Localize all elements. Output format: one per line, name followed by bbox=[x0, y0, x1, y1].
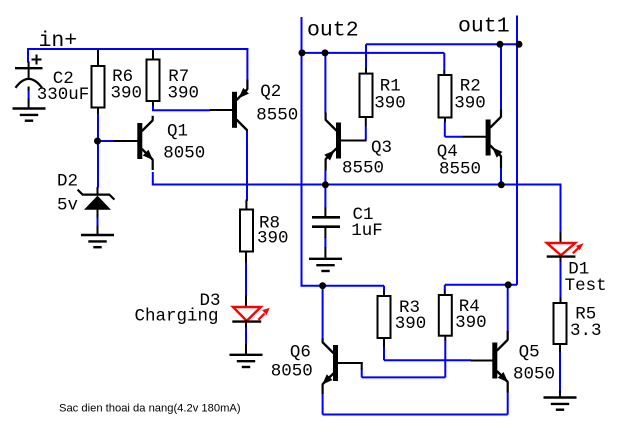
R3 value label bbox=[395, 314, 427, 334]
R1 refdes label bbox=[380, 77, 401, 97]
svg-text:390: 390 bbox=[111, 84, 143, 104]
svg-text:390: 390 bbox=[374, 93, 406, 113]
title text bbox=[59, 403, 241, 415]
R4 value label bbox=[455, 313, 487, 333]
R2 refdes label bbox=[460, 77, 481, 97]
R4 refdes label bbox=[459, 297, 480, 317]
wire D2 bottom to ground bbox=[97, 217, 99, 227]
wire bottom emitter rail bbox=[323, 414, 508, 416]
svg-text:5v: 5v bbox=[57, 195, 78, 215]
svg-text:390: 390 bbox=[168, 84, 200, 104]
resistor R2 bbox=[439, 70, 452, 122]
wire net out2 top horizontal bbox=[302, 52, 445, 54]
wire out1 vertical bbox=[516, 16, 518, 285]
wire C2 ground stub bbox=[28, 99, 30, 109]
ground for D3 bbox=[230, 355, 263, 367]
transistor Q2 bbox=[210, 80, 249, 131]
svg-text:Q1: Q1 bbox=[167, 122, 188, 142]
wire out1 bottom elbow to R4 bbox=[445, 285, 517, 290]
Q5 value label bbox=[513, 365, 555, 385]
R8 value label bbox=[257, 229, 289, 249]
wire out2 bottom elbow to R3 bbox=[301, 286, 385, 291]
resistor R7 bbox=[147, 50, 160, 106]
svg-text:8550: 8550 bbox=[256, 106, 298, 126]
node A junction dot bbox=[94, 138, 101, 145]
svg-text:3.3: 3.3 bbox=[570, 321, 602, 341]
svg-text:390: 390 bbox=[395, 314, 427, 334]
wire D1 bottom to R5 bbox=[560, 262, 562, 298]
Q3 refdes label bbox=[371, 138, 392, 158]
wire in+ top rail bbox=[27, 48, 248, 50]
transistor Q6 bbox=[322, 339, 363, 395]
R5 refdes label bbox=[575, 305, 596, 325]
Q3 value label bbox=[342, 158, 384, 178]
R1 value label bbox=[374, 93, 406, 113]
R3 refdes label bbox=[399, 298, 420, 318]
wire bus elbow down to D1 bbox=[560, 184, 562, 234]
wire Q2 emitter drop from rail bbox=[246, 48, 248, 80]
wire Q1 emitter drop bbox=[152, 172, 154, 185]
node Q5 collector junction dot bbox=[505, 281, 512, 288]
wire drop to R1 top bbox=[365, 44, 367, 68]
svg-text:330uF: 330uF bbox=[37, 85, 90, 105]
svg-text:390: 390 bbox=[455, 313, 487, 333]
svg-text:Sac dien thoai da nang(4.2v 18: Sac dien thoai da nang(4.2v 180mA) bbox=[59, 403, 241, 415]
svg-text:8550: 8550 bbox=[439, 160, 481, 180]
wire net out1 top horizontal bbox=[366, 43, 519, 45]
svg-text:out1: out1 bbox=[458, 15, 510, 39]
net label in+ bbox=[39, 29, 78, 53]
wire Q6 collector riser bbox=[322, 285, 324, 339]
node Q3 collector junction dot bbox=[322, 49, 329, 56]
R6 refdes label bbox=[112, 67, 133, 87]
Q6 value label bbox=[271, 361, 313, 381]
transistor Q1 bbox=[114, 116, 154, 170]
svg-text:8050: 8050 bbox=[163, 144, 205, 164]
svg-text:8550: 8550 bbox=[342, 158, 384, 178]
wire C1 bottom to ground bbox=[324, 237, 326, 248]
wire R5 bottom to ground bbox=[559, 352, 561, 392]
svg-text:8050: 8050 bbox=[271, 361, 313, 381]
wire C1 node to cap bbox=[324, 186, 326, 209]
wire Q3 emitter to C1 node bbox=[324, 170, 326, 186]
wire C2 bottom to ground bbox=[28, 90, 30, 100]
transistor Q5 bbox=[471, 331, 509, 393]
svg-text:Q5: Q5 bbox=[519, 343, 540, 363]
Q2 refdes label bbox=[260, 82, 281, 102]
svg-text:Charging: Charging bbox=[135, 307, 219, 327]
svg-text:390: 390 bbox=[454, 93, 486, 113]
wire Q1 base to node A bbox=[97, 140, 115, 142]
Q5 refdes label bbox=[519, 343, 540, 363]
node C1 junction dot bbox=[322, 181, 329, 188]
wire in+ drop to C2 bbox=[27, 48, 29, 63]
wire Q2 collector to R8 bbox=[246, 130, 248, 201]
net label out1 bbox=[458, 15, 510, 39]
D3 refdes label bbox=[200, 291, 221, 311]
node Q4 collector junction dot bbox=[497, 41, 504, 48]
zener diode D2 bbox=[78, 187, 115, 218]
svg-text:8050: 8050 bbox=[513, 365, 555, 385]
wire R8 bottom to D3 bbox=[245, 262, 247, 297]
node out2 junction dot bbox=[299, 49, 306, 56]
Q4 refdes label bbox=[437, 142, 458, 162]
wire R6 bottom / D2 column bbox=[97, 113, 99, 188]
D3 name label bbox=[135, 307, 219, 327]
wire Q6 emitter drop bbox=[322, 393, 324, 415]
svg-text:Test: Test bbox=[565, 276, 607, 296]
C1 value label bbox=[351, 221, 383, 241]
ground for C2 bbox=[13, 109, 46, 121]
wire Q6 base elbow bbox=[361, 369, 363, 378]
wire drop to R2 top bbox=[443, 53, 445, 71]
LED D1 bbox=[547, 232, 584, 262]
D2 value label bbox=[57, 195, 78, 215]
node Q6 collector junction dot bbox=[319, 282, 326, 289]
svg-text:Q3: Q3 bbox=[371, 138, 392, 158]
wire D2 ground stub bbox=[97, 226, 99, 236]
wire R7 bottom to node bbox=[152, 105, 210, 110]
D1 name label bbox=[565, 276, 607, 296]
net label out2 bbox=[307, 19, 359, 43]
capacitor C2 bbox=[15, 55, 43, 91]
transistor Q3 bbox=[324, 113, 366, 171]
svg-text:390: 390 bbox=[257, 229, 289, 249]
svg-text:D2: D2 bbox=[57, 171, 78, 191]
D2 refdes label bbox=[57, 171, 78, 191]
resistor R1 bbox=[360, 68, 373, 127]
wire R3 bottom drop bbox=[383, 347, 385, 361]
R5 value label bbox=[570, 321, 602, 341]
ground for R5 bbox=[544, 398, 577, 410]
Q6 refdes label bbox=[290, 342, 311, 362]
C2 value label bbox=[37, 85, 90, 105]
Q1 value label bbox=[163, 144, 205, 164]
node out1 junction dot bbox=[516, 41, 523, 48]
svg-text:out2: out2 bbox=[307, 19, 359, 43]
wire R5 ground stub bbox=[559, 391, 561, 398]
wire D3 ground stub bbox=[245, 344, 247, 355]
wire out2 vertical bbox=[301, 17, 303, 286]
svg-text:Q6: Q6 bbox=[290, 342, 311, 362]
ground for D2 bbox=[81, 235, 114, 247]
Q1 refdes label bbox=[167, 122, 188, 142]
resistor R3 bbox=[378, 291, 391, 348]
wire Q5 emitter drop bbox=[507, 392, 509, 415]
wire Q4 emitter to bus bbox=[500, 167, 502, 185]
wire Q4 collector drop bbox=[500, 44, 502, 110]
wire Q6 base to R4 bottom bbox=[362, 340, 446, 377]
ground for C1 bbox=[309, 259, 342, 271]
wire R3 to Q5 base bbox=[384, 359, 471, 361]
resistor R8 bbox=[240, 200, 253, 263]
resistor R6 bbox=[92, 50, 105, 114]
wire long horizontal emitter bus bbox=[152, 184, 561, 186]
transistor Q4 bbox=[445, 110, 503, 169]
resistor R4 bbox=[439, 290, 452, 341]
C2 refdes label bbox=[53, 69, 74, 89]
svg-text:in+: in+ bbox=[39, 29, 78, 53]
wire Q3 collector drop from out2 net bbox=[324, 53, 326, 113]
svg-text:1uF: 1uF bbox=[351, 221, 383, 241]
resistor R5 bbox=[554, 297, 567, 352]
LED D3 bbox=[232, 296, 269, 328]
R6 value label bbox=[111, 84, 143, 104]
R7 refdes label bbox=[168, 67, 189, 87]
Q4 value label bbox=[439, 160, 481, 180]
Q2 value label bbox=[256, 106, 298, 126]
R7 value label bbox=[168, 84, 200, 104]
svg-text:Q2: Q2 bbox=[260, 82, 281, 102]
C1 refdes label bbox=[353, 205, 374, 225]
node Q4 emitter junction dot bbox=[498, 181, 505, 188]
D1 refdes label bbox=[568, 259, 589, 279]
R8 refdes label bbox=[259, 214, 280, 234]
wire D3 bottom to ground bbox=[245, 327, 247, 346]
R2 value label bbox=[454, 93, 486, 113]
capacitor C1 bbox=[312, 208, 340, 259]
wire Q5 collector drop from node bbox=[507, 285, 509, 332]
